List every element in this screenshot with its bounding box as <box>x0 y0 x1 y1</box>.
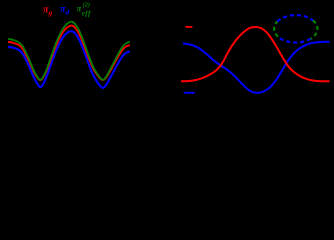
highlight ellipse: green dashed left arc <box>274 22 278 37</box>
left panel curve: red band <box>8 26 130 81</box>
left panel curve: green band <box>8 22 130 80</box>
highlight ellipse: green dashed right arc <box>311 20 318 38</box>
highlight ellipse: blue dashed top arc <box>277 15 313 21</box>
svg-text:eff: eff <box>82 9 92 18</box>
left panel curve: blue band <box>8 31 130 88</box>
right panel legend stub: red dash top <box>185 26 192 28</box>
right panel curve: blue level <box>183 42 330 93</box>
highlight ellipse: blue dashed bottom arc <box>278 37 311 43</box>
right panel legend stub: blue dash bottom <box>184 92 195 94</box>
svg-text:(2): (2) <box>83 2 91 9</box>
right panel curve: red level <box>181 27 330 81</box>
left panel legend: green label pi^(2)_eff <box>77 2 92 18</box>
